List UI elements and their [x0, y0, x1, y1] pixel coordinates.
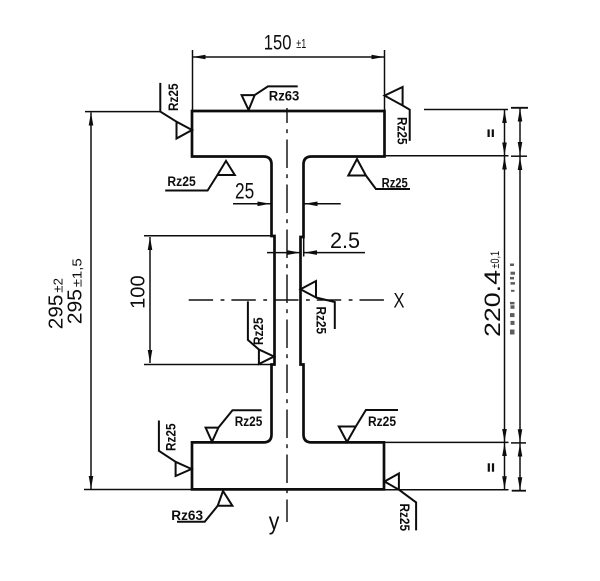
svg-text:Rz63: Rz63 [269, 89, 300, 104]
svg-text:X: X [394, 290, 405, 313]
svg-text:±0,1: ±0,1 [490, 251, 502, 269]
right extension line bottom flange bottom [384, 489, 509, 491]
roughness Rz25 bottom-right corner [385, 474, 417, 531]
extension line 100 top [144, 235, 272, 237]
roughness Rz25 web right (middle) [301, 281, 335, 329]
dimension text 295±1,5 (rotated) [64, 258, 87, 324]
svg-text:25: 25 [235, 179, 254, 204]
I-beam cross-section outline [192, 111, 385, 489]
svg-text:Rz25: Rz25 [165, 83, 181, 111]
roughness Rz25 top-left fillet [165, 161, 235, 191]
extension line bottom-left flange [84, 489, 192, 491]
roughness Rz63 top [242, 86, 298, 110]
dimension 150±1 extension line right [384, 50, 386, 111]
dimension 2.5 [267, 252, 301, 254]
svg-text:Rz25: Rz25 [163, 423, 179, 451]
right inner dimension line (flange = / 220.4 / flange =) [504, 110, 506, 489]
right extension line flange top [424, 109, 508, 111]
dimension 295 line (left) [90, 113, 92, 490]
svg-text:Rz63: Rz63 [171, 508, 203, 523]
roughness Rz25 top-left corner [160, 83, 192, 139]
svg-text:Rz25: Rz25 [368, 414, 396, 429]
dimension text 220.4±0.1 (rotated) [480, 251, 505, 337]
dimension text 100 (rotated) [126, 275, 149, 309]
vertical centerline (y axis) [286, 108, 288, 522]
roughness Rz25 web left (middle) [248, 301, 274, 364]
roughness Rz63 bottom [177, 491, 232, 522]
right outer (ghost) dimension line [519, 108, 521, 491]
dimension text 295±2 (rotated) [45, 278, 68, 329]
svg-text:150: 150 [264, 32, 292, 55]
svg-text:Rz25: Rz25 [382, 176, 409, 191]
right extension line bottom flange top [384, 441, 509, 443]
extension line for 2.5 [303, 237, 305, 257]
right extension line flange bottom [385, 155, 509, 157]
roughness Rz25 bottom-left corner [159, 421, 192, 477]
svg-text:±1,5: ±1,5 [70, 258, 85, 287]
svg-text:295: 295 [64, 289, 87, 324]
equality mark top [489, 129, 493, 137]
svg-text:Rz25: Rz25 [167, 174, 196, 189]
equality mark bottom [489, 463, 493, 471]
dimension 25 (web) [233, 203, 271, 205]
svg-text:±1: ±1 [296, 37, 306, 51]
svg-text:y: y [269, 509, 280, 536]
roughness Rz25 top-right corner [385, 87, 410, 141]
extension line 100 bottom [144, 364, 272, 366]
roughness Rz25 bottom-right fillet [339, 410, 398, 442]
roughness Rz25 top-right fillet [348, 159, 410, 189]
dimension 150±1 dimension line [193, 56, 385, 58]
svg-text:220.4: 220.4 [480, 270, 505, 337]
extension line top-left flange [85, 111, 160, 113]
svg-text:Rz25: Rz25 [235, 414, 263, 429]
horizontal centerline (X axis) [189, 299, 391, 301]
svg-text:Rz25: Rz25 [397, 504, 413, 532]
roughness Rz25 bottom-left fillet [206, 410, 262, 442]
dimension 100 line [149, 237, 151, 363]
dimension 150±1 extension line left [192, 50, 194, 111]
svg-text:Rz25: Rz25 [395, 117, 411, 145]
svg-text:Rz25: Rz25 [314, 307, 330, 335]
svg-text:Rz25: Rz25 [250, 317, 266, 345]
ghost dimension text (faint) [510, 264, 515, 335]
svg-text:100: 100 [126, 275, 149, 309]
svg-text:2.5: 2.5 [330, 228, 360, 253]
